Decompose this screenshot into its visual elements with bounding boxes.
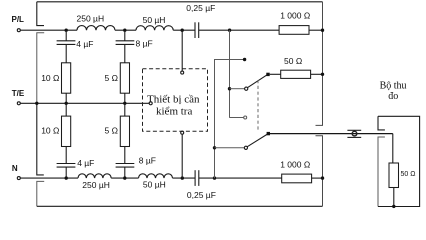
svg-text:8 µF: 8 µF	[139, 156, 156, 166]
wire R7 to right rail	[311, 73, 323, 75]
wire C2 to R3	[124, 44, 126, 62]
node junction top rail right rail	[321, 29, 324, 32]
wire bottom rail cap to 1000 ohm resistor	[199, 177, 282, 179]
switch S1 pivot square	[266, 73, 269, 76]
node junction R7 right rail	[321, 73, 324, 76]
node junction receiver bottom	[392, 205, 395, 208]
wire N link line vertical	[215, 60, 244, 179]
wire N rail from terminal to 250uH coil	[20, 177, 78, 179]
node junction top rail 8uF branch	[123, 29, 126, 32]
svg-text:50 Ω: 50 Ω	[284, 56, 302, 66]
svg-text:Thiết bị cần: Thiết bị cần	[147, 93, 200, 105]
wire R3 to T/E rail	[124, 93, 126, 103]
wire R4 to C4	[65, 147, 67, 164]
wire right rail upper segment with hook above receiver-line crossing	[316, 2, 323, 126]
node junction bottom rail DUT branch	[181, 176, 184, 179]
svg-text:250 µH: 250 µH	[77, 13, 105, 23]
resistor R2 10 ohm (upper left branch)	[62, 63, 71, 93]
svg-text:10 Ω: 10 Ω	[41, 73, 59, 83]
resistor R1 1000 ohm (top rail)	[279, 26, 309, 35]
wire top rail resistor to right rail	[309, 29, 323, 31]
wire C1 to R2	[65, 44, 67, 62]
capacitor C4 4 uF (bottom left branch)	[57, 164, 76, 179]
node junction bottom rail C4 branch	[65, 176, 68, 179]
wire top rail cap to 1000 ohm resistor	[199, 29, 279, 31]
svg-text:0,25 µF: 0,25 µF	[186, 3, 215, 13]
svg-text:10 Ω: 10 Ω	[41, 126, 59, 136]
resistor R5 5 ohm (lower second branch)	[120, 116, 129, 146]
capacitor C5 8 uF (bottom second branch)	[116, 164, 135, 179]
capacitor C3 0.25uF series in top rail	[195, 22, 199, 38]
wire left frame hook below P/L crossing	[37, 33, 44, 104]
svg-text:N: N	[12, 164, 18, 173]
node junction T/E R3 branch	[123, 102, 126, 105]
svg-text:kiểm tra: kiểm tra	[156, 106, 192, 118]
svg-text:250 µH: 250 µH	[82, 180, 110, 190]
wire T/E to R5	[124, 103, 126, 116]
node junction top rail 4uF branch	[65, 29, 68, 32]
wire bottom rail between coils	[111, 177, 138, 179]
wire bottom rail coil to 0.25uF cap	[173, 177, 196, 179]
node junction bottom rail N-switch line	[213, 176, 216, 179]
inductor L2 50 uH (top rail)	[136, 26, 173, 31]
wire right rail hook below crossing down to bottom frame	[316, 136, 323, 207]
node junction bottom rail right rail	[321, 176, 324, 179]
node DUT left terminal circle	[149, 102, 152, 105]
node DUT top terminal circle	[181, 71, 184, 74]
wire top rail between coils	[115, 29, 136, 31]
svg-text:5 Ω: 5 Ω	[105, 126, 118, 136]
switch S2 blade (receiver selector)	[247, 134, 268, 147]
wire T/E to R4	[65, 103, 67, 116]
capacitor C6 0.25uF series in bottom rail	[195, 170, 199, 186]
svg-text:8 µF: 8 µF	[136, 38, 153, 48]
svg-text:T/E: T/E	[12, 89, 25, 98]
switch S1 blade (50 ohm termination selector)	[247, 74, 268, 87]
wire R8 to receiver box bottom	[393, 188, 395, 207]
svg-text:50 Ω: 50 Ω	[401, 171, 416, 178]
wire left frame upper segment with hook above P/L crossing	[37, 2, 44, 26]
wire left frame hook below N crossing down to bottom frame	[37, 181, 44, 206]
svg-text:5 Ω: 5 Ω	[105, 73, 118, 83]
node junction top rail DUT branch	[181, 29, 184, 32]
inductor L4 50 uH (bottom rail)	[139, 174, 173, 178]
node junction N link to lower switch pole	[213, 146, 216, 149]
device under test dashed box	[143, 69, 208, 132]
wire left frame segment T/E to N crossing hook	[37, 103, 44, 175]
connector coaxial symbol lower bar	[347, 136, 361, 138]
wire stub to upper switch moving contact	[230, 88, 245, 90]
wire P/L measure line from top rail down to switch	[229, 30, 231, 118]
svg-text:1 000 Ω: 1 000 Ω	[280, 11, 310, 21]
resistor R6 1000 ohm (bottom rail)	[282, 174, 312, 183]
inductor L1 250 uH (top rail)	[77, 26, 115, 31]
svg-text:50 µH: 50 µH	[143, 15, 166, 25]
resistor R4 10 ohm (lower left branch)	[62, 116, 71, 146]
svg-text:4 µF: 4 µF	[76, 39, 93, 49]
resistor R7 50 ohm (termination)	[281, 70, 311, 78]
svg-text:1 000 Ω: 1 000 Ω	[280, 160, 310, 170]
node upper switch upper contact circle	[243, 58, 246, 61]
wire stub to lower switch pole contact	[215, 147, 245, 149]
wire R5 to C5	[124, 147, 126, 164]
svg-text:0,25 µF: 0,25 µF	[187, 190, 216, 200]
svg-text:P/L: P/L	[12, 15, 25, 24]
node P/L terminal circle	[17, 29, 20, 32]
svg-text:50 µH: 50 µH	[143, 180, 166, 190]
top frame (reference ground) line	[37, 1, 323, 3]
svg-text:đo: đo	[388, 91, 398, 102]
node upper switch selected contact circle	[245, 87, 248, 90]
svg-text:Bộ thu: Bộ thu	[380, 80, 407, 91]
node junction T/E R2 branch	[65, 102, 68, 105]
measuring receiver box top right bottom edges	[378, 116, 420, 206]
measuring receiver box left edge upper segment with hook	[378, 116, 385, 130]
switch S2 pivot square	[267, 132, 270, 135]
switch coupling dashed link	[257, 80, 259, 132]
node N terminal circle	[17, 177, 20, 180]
wire S1 pivot to 50 ohm resistor	[270, 73, 281, 75]
capacitor C1 4 uF (top left branch)	[57, 32, 76, 45]
wire T/E rail to DUT left terminal	[20, 102, 149, 104]
node lower switch selected contact circle	[244, 146, 247, 149]
node junction T/E frame	[35, 102, 38, 105]
wire receiver line from S2 to receiver box	[270, 133, 393, 135]
node junction top rail to switch line	[228, 29, 231, 32]
node junction P/L measure line to switch pole	[228, 87, 231, 90]
node T/E terminal circle	[17, 102, 20, 105]
wire R2 to T/E rail	[65, 93, 67, 103]
wire DUT bottom lead to bottom rail	[181, 134, 183, 178]
node upper switch lower contact circle	[244, 116, 247, 119]
node junction bottom rail C5 branch	[123, 176, 126, 179]
wire hook to upper switch lower fixed contact	[230, 117, 244, 119]
wire P/L rail from terminal to 250uH coil	[20, 29, 77, 31]
connector coaxial symbol upper bar	[347, 129, 361, 131]
wire DUT top lead from top rail	[181, 30, 183, 71]
resistor R3 5 ohm (upper second branch)	[120, 63, 129, 93]
inductor L3 250 uH (bottom rail)	[78, 174, 111, 178]
connector coaxial symbol circle	[352, 131, 357, 136]
wire bottom rail resistor to right rail	[312, 177, 323, 179]
measuring receiver box left edge lower hook and segment	[378, 137, 385, 207]
capacitor C2 8 uF (top second branch)	[116, 32, 135, 45]
node DUT bottom terminal circle	[181, 131, 184, 134]
wire top rail coil to 0.25uF cap	[173, 29, 195, 31]
resistor R8 50 ohm (receiver input)	[389, 163, 399, 188]
svg-text:4 µF: 4 µF	[77, 158, 94, 168]
bottom frame (reference ground) line	[37, 205, 323, 207]
wire receiver internal lead down to 50 ohm load	[392, 134, 394, 163]
